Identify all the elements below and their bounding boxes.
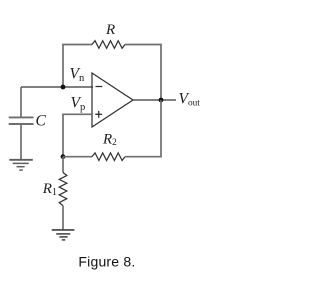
node R1/R2 junction dot xyxy=(61,154,66,159)
wire: R2 right lead xyxy=(125,156,162,158)
wire: Vp vertical down to R1/R2 node xyxy=(62,114,64,157)
svg-text:C: C xyxy=(36,113,47,130)
resistor R2 (zigzag) xyxy=(92,153,125,161)
svg-text:Vout: Vout xyxy=(179,90,201,108)
ground (bottom, under R1) xyxy=(52,230,75,240)
node output junction dot xyxy=(159,98,164,103)
op-amp plus sign (non-inverting input) xyxy=(95,111,102,118)
wire: right vertical (output node down to R2) xyxy=(160,100,162,158)
ground (left, under C) xyxy=(9,160,33,170)
svg-text:R: R xyxy=(105,22,115,38)
svg-text:Vp: Vp xyxy=(71,95,86,113)
wire: Vn node horizontal (cap to inverting input) xyxy=(21,86,93,88)
wire: feedback top-right horizontal xyxy=(125,44,162,46)
wire: Vp input horizontal xyxy=(63,113,93,115)
wire: capacitor bottom lead xyxy=(20,124,22,160)
svg-text:Figure 8.: Figure 8. xyxy=(78,254,135,270)
wire: right vertical (feedback to output node) xyxy=(160,44,162,100)
wire: R1 bottom lead xyxy=(62,206,64,230)
wire: feedback loop left vertical xyxy=(62,45,64,88)
op-amp U1 triangle xyxy=(92,73,133,127)
wire: R1 top lead xyxy=(62,157,64,173)
wire: output of op-amp to Vout stub xyxy=(133,99,176,101)
svg-text:Vn: Vn xyxy=(70,66,85,84)
resistor R (zigzag, top feedback) xyxy=(92,41,125,49)
resistor R1 (vertical zigzag) xyxy=(59,173,67,206)
op-amp minus sign (inverting input) xyxy=(96,86,103,88)
svg-text:R2: R2 xyxy=(102,131,117,148)
wire: feedback top-left horizontal xyxy=(62,44,92,46)
wire: R2 left lead xyxy=(63,156,92,158)
wire: capacitor top lead xyxy=(20,87,22,117)
capacitor C plates xyxy=(9,117,34,124)
svg-text:R1: R1 xyxy=(42,181,57,198)
node Vn junction dot xyxy=(61,85,66,90)
